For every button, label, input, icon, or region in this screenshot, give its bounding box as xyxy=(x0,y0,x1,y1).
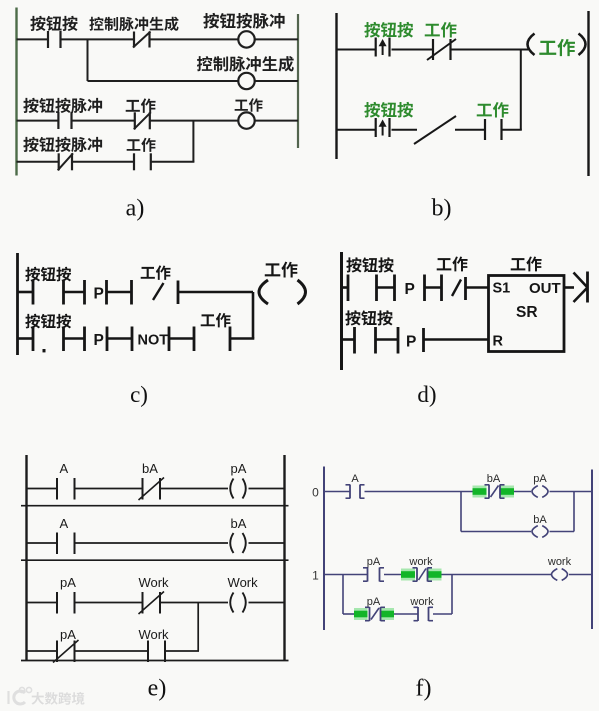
label 工作 (b coil) xyxy=(539,39,575,56)
contact P left (c rung2) xyxy=(64,327,85,352)
label 工作 (a rung3) xyxy=(127,138,156,152)
svg-text:bA: bA xyxy=(231,516,247,531)
wire (f net1 a) xyxy=(324,574,367,576)
wire (f net1 rejoin vertical) xyxy=(451,575,453,615)
wire (e rung3 b) xyxy=(75,602,143,604)
contact work NO (f branch) xyxy=(414,607,434,621)
contact 按钮按 NO (c rung1) xyxy=(18,280,34,305)
contact 工作 NC (rung2) xyxy=(134,112,151,129)
label f) xyxy=(416,676,432,702)
svg-text:pA: pA xyxy=(367,556,381,568)
label e) xyxy=(148,676,167,702)
wire (f net0 b) xyxy=(365,491,474,493)
contact pA NC highlighted (f branch) xyxy=(354,607,394,621)
contact NOT slash (b rung2) xyxy=(414,116,456,144)
svg-text:pA: pA xyxy=(533,473,547,485)
svg-text:P: P xyxy=(94,286,104,303)
wire (e rung1 a) xyxy=(27,488,58,490)
label a) xyxy=(126,196,145,222)
watermark text 大数跨境 xyxy=(31,692,84,705)
label 工作 (c rung1) xyxy=(141,265,171,279)
wire (e rung3 d) xyxy=(249,602,285,604)
left power rail (panel b) xyxy=(335,13,337,159)
contact 按钮按 NO (c rung2) xyxy=(18,327,34,352)
label pA (e rung3) xyxy=(60,575,76,590)
wire (e rung3 a) xyxy=(27,602,58,604)
contact pA NO (f net1) xyxy=(363,568,384,582)
label pA (e rung4) xyxy=(60,627,76,642)
wire (d output) xyxy=(564,286,574,289)
svg-text:OUT: OUT xyxy=(529,280,561,297)
contact P left bar (c rung1) xyxy=(64,280,85,305)
contact 工作 NO (rung3) xyxy=(134,153,151,170)
label 工作 (d rung1) xyxy=(437,256,468,271)
coil 工作 (b) xyxy=(528,34,586,56)
wire (a rung1 left) xyxy=(17,38,49,40)
contact 工作 NC (d rung1) xyxy=(425,275,442,302)
label work (f net1 coil) xyxy=(547,556,572,568)
wire (a rung2 mid) xyxy=(72,120,135,122)
svg-text:0: 0 xyxy=(312,486,319,500)
label pA (f net1) xyxy=(367,556,381,568)
wire bar (d rung1) xyxy=(464,277,467,300)
svg-text:pA: pA xyxy=(367,596,381,608)
svg-text:bA: bA xyxy=(142,461,158,476)
svg-text:bA: bA xyxy=(533,514,547,526)
label 按钮按 (d rung2) xyxy=(345,310,392,325)
wire (f net0 a) xyxy=(324,491,350,493)
wire (f net1 d) xyxy=(569,574,592,576)
contact P left (d rung2) xyxy=(376,327,399,354)
wire (f net1 b) xyxy=(384,574,401,576)
wire (f net1 branch c) xyxy=(433,613,452,615)
function block SR xyxy=(489,276,565,352)
rung separator 1 (e) xyxy=(21,505,289,507)
wire (e branch vertical) xyxy=(197,603,199,652)
label 按钮按 (c rung1) xyxy=(25,267,71,282)
pin label S1 xyxy=(493,281,511,297)
contact 按钮按 NO (d rung1) xyxy=(342,275,349,302)
wire (b rung2 left) xyxy=(337,129,376,131)
contact 工作 NC (c rung1) xyxy=(107,280,132,305)
output arrow xyxy=(574,272,588,303)
label P (c rung2) xyxy=(94,332,104,349)
wire (e rung1 b) xyxy=(75,488,143,490)
label 工作 (c coil) xyxy=(265,262,298,278)
coil work (f net1) xyxy=(552,569,568,581)
wire (c rung1 to coil) xyxy=(178,291,253,294)
contact 按钮按脉冲 NC (rung3) xyxy=(58,153,73,170)
label A (e rung2) xyxy=(59,516,68,531)
label 按钮按 (d rung1) xyxy=(346,257,393,272)
block label SR xyxy=(516,304,538,321)
coil bA (f net0 branch) xyxy=(532,526,548,538)
wire (b rung1 m1) xyxy=(392,49,434,51)
label 工作 (c rung2) xyxy=(201,313,231,327)
contact bA NC highlighted (f net0) xyxy=(473,485,515,499)
wire (f net0 rejoin vertical) xyxy=(573,492,575,532)
label 按钮按脉冲 (a rung3) xyxy=(23,137,102,152)
left power rail (panel e) xyxy=(25,455,27,661)
label P (c rung1) xyxy=(94,286,104,303)
wire (a rung1 right) xyxy=(150,38,239,40)
contact 按钮按 P (rung1) xyxy=(376,38,390,57)
contact A NO (e rung1) xyxy=(57,478,75,500)
label Work (e rung3) xyxy=(138,575,169,590)
rung separator 3 (e) xyxy=(21,660,289,662)
wire (f net0 branch horizontal) xyxy=(461,531,531,533)
label work (f net1) xyxy=(408,556,433,568)
label bA (f net0) xyxy=(487,473,501,485)
wire (a branch to rail) xyxy=(255,80,298,82)
label P (d rung2) xyxy=(406,334,416,351)
coil 按钮按脉冲 xyxy=(238,31,254,47)
wire (d rung1 to box) xyxy=(466,286,489,289)
label 按钮按脉冲 (a rung2) xyxy=(23,98,102,113)
wire (a rung3 left) xyxy=(17,161,59,163)
coil 控制脉冲生成 xyxy=(238,73,254,89)
wire (e rung1 c) xyxy=(160,488,228,490)
label 工作 (a rung2) xyxy=(126,98,156,112)
coil bA (e rung2) xyxy=(230,533,246,553)
label A (e rung1) xyxy=(59,461,68,476)
wire bar (d rung2) xyxy=(422,328,425,352)
label 按钮按 (c rung2) xyxy=(25,314,71,329)
contact pA NO (e rung3) xyxy=(57,592,75,614)
label 按钮按 (b rung1) xyxy=(364,22,413,38)
contact 按钮按 P (rung2) xyxy=(376,118,390,137)
wire (f net1 branch drop) xyxy=(342,575,344,615)
wire bar (c rung1) xyxy=(177,281,180,305)
label NOT (c rung2) xyxy=(138,333,169,349)
left power rail (panel d) xyxy=(340,252,343,370)
wire (b rung2 to branch) xyxy=(502,129,522,131)
svg-text:a): a) xyxy=(126,196,145,222)
contact 控制脉冲生成 NC xyxy=(133,32,151,48)
wire (a branch drop) xyxy=(87,39,89,81)
svg-text:A: A xyxy=(351,473,359,485)
coil 工作 xyxy=(238,112,254,128)
label bA (f net0 branch) xyxy=(533,514,547,526)
wire (f net0 branch drop) xyxy=(460,492,462,532)
wire (d rung2 to box R) xyxy=(424,338,489,341)
label A (f net0) xyxy=(351,473,359,485)
label 工作 (b rung1) xyxy=(425,22,457,37)
wire (e rung4 a) xyxy=(27,650,58,652)
contact 按钮按 NO xyxy=(48,31,61,48)
svg-text:e): e) xyxy=(148,676,167,702)
right power rail (panel f) xyxy=(591,470,593,630)
wire (a rung2 to rail) xyxy=(255,120,298,122)
label b) xyxy=(432,196,452,222)
wire (a rung2 right) xyxy=(150,120,239,122)
svg-text:c): c) xyxy=(130,382,148,407)
contact 按钮按脉冲 NO (rung2) xyxy=(58,112,71,129)
left power rail (panel f) xyxy=(323,467,325,631)
contact after NOT (c rung2) xyxy=(169,327,194,352)
svg-text:pA: pA xyxy=(60,575,76,590)
pin label R xyxy=(493,334,504,350)
contact 工作 NO (c rung2) xyxy=(230,327,254,352)
svg-text:work: work xyxy=(408,556,433,568)
contact 按钮按 NO (d rung2) xyxy=(342,327,355,354)
label 按钮按 (a rung1) xyxy=(30,16,77,31)
contact pA NC (e rung4) xyxy=(53,640,79,663)
wire (f net1 branch a) xyxy=(343,613,354,615)
svg-text:Work: Work xyxy=(138,627,169,642)
label pA (e rung1) xyxy=(231,461,247,476)
rung separator 2 (e) xyxy=(21,559,289,561)
svg-text:SR: SR xyxy=(516,304,538,321)
svg-text:A: A xyxy=(59,461,68,476)
contact 工作 NO (b rung2) xyxy=(485,119,502,140)
wire (e rung4 b) xyxy=(75,650,149,652)
label pA (f net1 branch) xyxy=(367,596,381,608)
wire (a rung1 to rail) xyxy=(255,38,298,40)
contact Work NO (e rung4) xyxy=(148,641,165,663)
network number 1 xyxy=(312,569,319,583)
coil 工作 (c) xyxy=(259,280,306,304)
label c) xyxy=(130,382,148,407)
wire (e rung2 b) xyxy=(75,542,229,544)
label 工作 (b rung2) xyxy=(477,102,509,117)
label 工作 (a coil3) xyxy=(235,98,263,112)
right power rail (panel a) xyxy=(297,14,299,148)
wire (b rung2 m1) xyxy=(392,129,418,131)
wire (e rung3 c) xyxy=(160,602,228,604)
contact 工作 NC (b rung1) xyxy=(427,39,456,60)
label 控制脉冲生成 (a branch) xyxy=(197,56,294,72)
contact P left (d rung1) xyxy=(377,275,395,302)
contact A NO (f net0) xyxy=(346,485,365,499)
watermark icon xyxy=(9,687,32,704)
label d) xyxy=(417,382,436,407)
wire (f net1 c) xyxy=(442,574,552,576)
wire (a rung3 right) xyxy=(151,161,195,163)
label 按钮按 (b rung2) xyxy=(364,102,413,118)
wire (f net0 branch to rejoin) xyxy=(550,531,575,533)
wire (e rung2 a) xyxy=(27,542,58,544)
coil pA (f net0) xyxy=(532,486,548,498)
coil pA (e rung1) xyxy=(230,479,246,499)
svg-text:work: work xyxy=(409,596,434,608)
svg-text:P: P xyxy=(406,334,416,351)
svg-text:d): d) xyxy=(417,382,436,407)
svg-text:bA: bA xyxy=(487,473,501,485)
wire (b rung1 left) xyxy=(337,49,376,51)
label bA (e rung1) xyxy=(142,461,158,476)
wire (b rung1 to coil) xyxy=(451,49,529,51)
svg-text:pA: pA xyxy=(231,461,247,476)
wire (a rung3 mid) xyxy=(72,161,134,163)
svg-text:work: work xyxy=(547,556,572,568)
label 按钮按脉冲 (a coil1) xyxy=(203,13,284,29)
svg-text:b): b) xyxy=(432,196,452,222)
wire (e rung2 c) xyxy=(249,542,285,544)
wire (a junction vertical) xyxy=(192,121,194,162)
period dot (c rung2) xyxy=(43,349,46,352)
coil Work (e rung3) xyxy=(230,593,246,613)
contact A NO (e rung2) xyxy=(57,533,75,555)
contact Work NC (e rung3) xyxy=(139,592,165,615)
wire (e rung4 c) xyxy=(165,650,199,652)
wire (c junction vertical) xyxy=(252,292,255,339)
svg-text:S1: S1 xyxy=(493,281,511,297)
label Work (e coil3) xyxy=(228,575,259,590)
wire (e rung1 d) xyxy=(249,488,285,490)
svg-text:A: A xyxy=(59,516,68,531)
contact work NC highlighted (f net1) xyxy=(401,568,442,582)
wire (a rung1 mid) xyxy=(61,38,135,40)
svg-text:Work: Work xyxy=(228,575,259,590)
pin label OUT xyxy=(529,280,561,297)
wire (a rung2 left) xyxy=(17,120,59,122)
contact NOT input (c rung2) xyxy=(107,327,132,352)
network number 0 xyxy=(312,486,319,500)
label P (d rung1) xyxy=(405,281,415,298)
wire (f net0 d) xyxy=(550,491,593,493)
wire (f net1 branch b) xyxy=(394,613,418,615)
label slash (c rung1) xyxy=(153,283,164,300)
wire (b rung2 m2) xyxy=(455,129,485,131)
svg-text:P: P xyxy=(405,281,415,298)
svg-text:1: 1 xyxy=(312,569,319,583)
svg-text:pA: pA xyxy=(60,627,76,642)
svg-text:f): f) xyxy=(416,676,432,702)
label Work (e rung4) xyxy=(138,627,169,642)
left power rail (panel c) xyxy=(16,253,19,355)
contact bA NC (e rung1) xyxy=(139,478,165,501)
svg-text:P: P xyxy=(94,332,104,349)
label pA (f net0) xyxy=(533,473,547,485)
svg-text:R: R xyxy=(493,334,504,350)
label 工作 (d box) xyxy=(511,256,542,271)
right power rail (panel e) xyxy=(283,455,285,661)
left power rail (panel a) xyxy=(15,8,17,176)
right power rail (panel b) xyxy=(587,11,589,176)
wire (f net0 c) xyxy=(514,491,531,493)
label 控制脉冲生成 (a rung1) xyxy=(89,17,178,31)
wire (b branch vertical) xyxy=(520,50,522,130)
svg-text:Work: Work xyxy=(138,575,169,590)
svg-text:NOT: NOT xyxy=(138,333,169,349)
label work (f net1 branch) xyxy=(409,596,434,608)
label bA (e rung2) xyxy=(231,516,247,531)
wire (a branch horizontal) xyxy=(88,80,239,82)
label slash (d rung1) xyxy=(452,280,461,297)
